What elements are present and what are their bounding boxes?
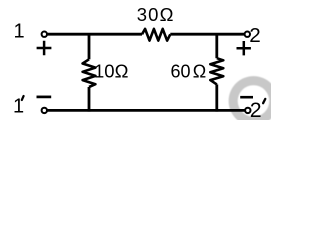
terminal 2 circle	[245, 32, 250, 37]
wire bottom from terminal 1p to terminal 2p	[47, 109, 245, 112]
svg-text:1: 1	[14, 21, 25, 43]
minus sign at terminal 2p	[240, 96, 253, 99]
svg-text:10Ω: 10Ω	[94, 61, 129, 82]
wire left branch lower	[88, 87, 91, 112]
plus sign at terminal 2	[237, 41, 251, 55]
wire left branch upper	[88, 33, 91, 59]
watermark arc	[229, 76, 279, 126]
terminal 1p circle	[42, 108, 47, 113]
minus sign at terminal 1p	[37, 96, 52, 99]
terminal 2p circle	[245, 108, 250, 113]
wire right branch lower	[215, 84, 218, 111]
terminal 1 circle	[42, 32, 47, 37]
svg-text:60Ω: 60Ω	[171, 62, 207, 82]
wire right branch upper	[215, 33, 218, 58]
wire top from resistor 30 to terminal 2	[170, 33, 244, 36]
plus sign at terminal 1	[37, 41, 52, 56]
svg-text:2: 2	[249, 24, 261, 47]
resistor 10ohm zigzag	[83, 59, 96, 87]
wire top from terminal 1 to resistor 30	[47, 33, 142, 36]
resistor 60ohm zigzag	[210, 58, 223, 84]
resistor 30ohm zigzag	[142, 29, 170, 41]
svg-text:2: 2	[250, 98, 262, 120]
svg-text:30Ω: 30Ω	[137, 4, 175, 25]
